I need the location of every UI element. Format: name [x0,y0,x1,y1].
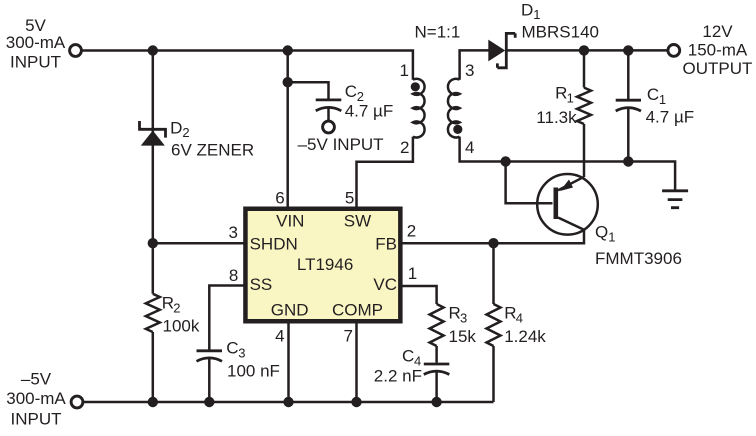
wire GND pin 4 [287,324,290,403]
svg-text:VIN: VIN [276,212,304,231]
svg-text:6: 6 [275,188,284,207]
junction node ground rail / Q1 base [500,156,510,166]
svg-text:R: R [504,304,516,323]
junction node top rail / VIN [283,45,293,55]
junction node ground rail / C1 bottom [623,156,633,166]
svg-text:100 nF: 100 nF [227,362,280,381]
svg-text:11.3k: 11.3k [536,108,577,127]
wire top rail from 5V input to transformer primary top [82,51,413,80]
junction node bottom rail / COMP pin [351,397,361,407]
capacitor C4 plates [424,363,450,366]
terminal -5V input bottom [71,396,83,408]
junction node top rail / D2 [148,45,158,55]
diode D1 triangle [488,40,505,62]
svg-text:C: C [345,82,357,101]
svg-text:5: 5 [345,188,354,207]
svg-text:SHDN: SHDN [250,235,298,254]
svg-text:1: 1 [533,7,540,22]
svg-text:GND: GND [271,301,309,320]
svg-text:1: 1 [659,92,666,107]
svg-text:4.7 µF: 4.7 µF [646,108,695,127]
wire C2 branch [288,82,329,99]
junction node output rail / C1 [623,45,633,55]
svg-text:–5V INPUT: –5V INPUT [298,135,384,154]
svg-text:12V: 12V [702,22,733,41]
ground symbol [662,191,688,208]
terminal -5V input (C2) [323,121,335,133]
svg-text:150-mA: 150-mA [688,41,748,60]
svg-text:Q: Q [595,223,608,242]
junction node SHDN / left rail [148,238,158,248]
wire Q1 base to ground rail [506,162,553,204]
wire SW pin 5 to transformer primary bottom [357,137,413,207]
svg-text:3: 3 [465,61,474,80]
wire COMP pin 7 [355,324,358,403]
svg-text:1: 1 [567,91,574,106]
wire R2 bottom to ground rail [152,332,155,402]
svg-text:INPUT: INPUT [11,410,62,429]
wire secondary bottom to ground rail with ground stem [460,137,675,190]
svg-text:3: 3 [460,311,467,326]
junction node bottom rail / C4 [431,397,441,407]
svg-text:2: 2 [182,125,189,140]
svg-text:D: D [170,119,182,138]
resistor R4 [487,304,501,346]
capacitor C3 plates [197,349,223,352]
capacitor C1 plates [616,99,641,102]
svg-text:FB: FB [375,235,397,254]
transistor Q1 base bar [554,188,559,220]
transistor Q1 circle [537,174,598,235]
svg-text:FMMT3906: FMMT3906 [595,249,682,268]
terminal 5V input [70,45,82,57]
wire C3 bottom to ground rail [208,359,211,403]
svg-text:7: 7 [344,326,353,345]
svg-text:D: D [521,1,533,20]
capacitor C2 plates [316,99,342,102]
wire FB pin 2 to Q1 collector [401,230,584,244]
svg-text:1: 1 [400,61,409,80]
svg-text:OUTPUT: OUTPUT [683,59,753,78]
wire C1 bottom to ground rail [627,108,630,162]
wire R3 bottom to C4 [435,346,438,363]
svg-text:4.7 µF: 4.7 µF [345,102,394,121]
wire R1 top lead [583,50,586,87]
wire bottom ground rail [84,401,494,404]
svg-text:8: 8 [229,266,238,285]
transformer primary phase dot [411,82,420,91]
svg-text:300-mA: 300-mA [6,389,66,408]
svg-text:INPUT: INPUT [10,53,61,72]
wire SHDN pin 3 [153,242,244,245]
junction node FB / R4 [488,238,498,248]
svg-text:C: C [647,85,659,104]
wire left vertical 5V rail down through D2 to R2 [152,51,155,294]
diode D1 schottky cathode bar [497,33,515,67]
svg-text:1: 1 [608,230,615,245]
terminal 12V output [668,45,680,57]
svg-text:SW: SW [344,212,371,231]
resistor R2 [146,294,160,332]
wire R4 bottom corner [492,346,495,402]
wire C4 bottom to ground rail [435,371,438,402]
svg-text:2.2 nF: 2.2 nF [374,367,422,386]
svg-text:LT1946: LT1946 [297,255,353,274]
svg-text:3: 3 [229,223,238,242]
junction node C2 tee [283,77,293,87]
zener diode D2 cathode bar with hooks [140,121,166,138]
svg-text:2: 2 [173,301,180,316]
wire D1 cathode to 12V output terminal [508,49,668,52]
zener diode D2 triangle [141,131,165,146]
wire C1 top lead [627,50,630,99]
wire R4 from FB line down [492,243,495,304]
wire VC pin 1 to R3 [401,286,437,304]
svg-text:N=1:1: N=1:1 [415,23,461,42]
svg-text:–5V: –5V [21,370,52,389]
transistor Q1 emitter diagonal [558,177,584,191]
transistor Q1 collector diagonal [558,218,584,230]
svg-text:C: C [226,339,238,358]
transformer T1 secondary winding [448,79,460,138]
svg-text:R: R [555,84,567,103]
IC U1 LT1946 body [245,209,400,322]
svg-text:R: R [449,304,461,323]
svg-text:MBRS140: MBRS140 [522,23,599,42]
svg-text:100k: 100k [163,317,200,336]
junction node bottom rail / GND pin [283,397,293,407]
svg-text:VC: VC [373,275,397,294]
svg-text:4: 4 [275,326,284,345]
wire VIN drop from top rail to pin 6 [286,51,289,207]
svg-text:15k: 15k [449,327,477,346]
transformer secondary phase dot [453,125,462,134]
svg-text:6V ZENER: 6V ZENER [171,141,254,160]
wire SS pin 8 to C3 [209,286,244,350]
svg-text:2: 2 [407,222,416,241]
junction node bottom rail / C3 [204,397,214,407]
svg-text:C: C [402,347,414,366]
wire transformer secondary top to D1 anode [460,50,489,79]
junction node output rail / R1 [579,45,589,55]
svg-text:4: 4 [516,311,523,326]
resistor R1 [577,88,591,124]
junction node bottom rail / R2 [148,397,158,407]
svg-text:SS: SS [250,275,273,294]
svg-text:3: 3 [238,346,245,361]
wire C2 to -5V input terminal [327,108,330,120]
transistor Q1 emitter arrow [560,180,573,192]
transformer T1 primary winding [413,79,425,138]
svg-text:300-mA: 300-mA [6,33,66,52]
svg-text:2: 2 [400,138,409,157]
wire R1 bottom to Q1 emitter (crosses rail, no junction) [583,124,586,177]
svg-text:4: 4 [465,138,474,157]
svg-text:1.24k: 1.24k [504,327,546,346]
svg-text:1: 1 [408,264,417,283]
resistor R3 [430,304,444,346]
svg-text:COMP: COMP [332,301,383,320]
svg-text:R: R [162,294,174,313]
